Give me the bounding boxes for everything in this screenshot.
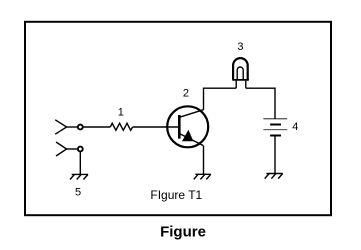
svg-text:4: 4	[292, 121, 298, 133]
label 4	[292, 121, 298, 133]
battery B4	[263, 119, 287, 136]
label 5	[75, 187, 81, 199]
label 3	[237, 41, 243, 53]
label 2	[183, 88, 189, 100]
svg-text:3: 3	[237, 41, 243, 53]
caption Figure	[160, 224, 206, 241]
switch contact S2 (bottom input)	[56, 142, 83, 156]
svg-text:2: 2	[183, 88, 189, 100]
svg-text:1: 1	[118, 107, 124, 119]
ground (under battery)	[265, 174, 283, 179]
ground (under switch)	[70, 174, 88, 179]
resistor R1	[110, 123, 132, 130]
svg-text:Figure: Figure	[160, 224, 206, 241]
wire resistor to transistor base	[133, 126, 178, 128]
label 1	[118, 107, 124, 119]
wire battery to ground	[274, 136, 276, 174]
wire S1 to resistor	[83, 126, 110, 128]
svg-text:5: 5	[75, 187, 81, 199]
caption FIgure T1	[150, 188, 202, 202]
ground (under transistor)	[194, 174, 211, 179]
transistor Q (NPN)	[167, 106, 208, 147]
collector wire up	[204, 88, 237, 110]
emitter wire down	[203, 146, 205, 175]
switch contact S1 (top input)	[55, 120, 83, 134]
svg-text:FIgure T1: FIgure T1	[150, 188, 202, 202]
border frame	[25, 22, 331, 215]
wire S2 to ground	[79, 152, 81, 175]
top wire right of lamp to battery	[246, 88, 275, 119]
lamp 3	[232, 58, 249, 88]
